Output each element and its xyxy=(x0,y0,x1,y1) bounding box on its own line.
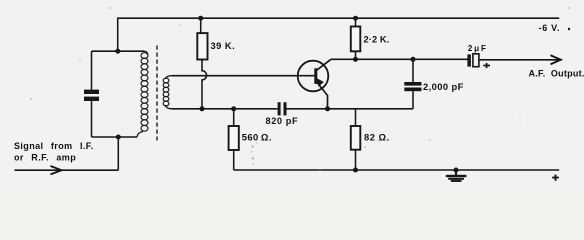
wire tank cap branch upper xyxy=(91,51,93,89)
wire 2.2K lead bottom xyxy=(355,51,357,59)
wire input vertical to tank xyxy=(117,137,119,170)
label plus polarity xyxy=(483,63,490,68)
transistor Q1 emitter arrow (PNP) xyxy=(316,78,324,87)
transformer core dashed line xyxy=(156,46,158,141)
svg-text:39 K.: 39 K. xyxy=(211,41,236,51)
resistor R3 2.2K lead top xyxy=(355,18,357,26)
svg-text:A.F. Output.: A.F. Output. xyxy=(529,69,584,79)
capacitor C3 2000pF plates xyxy=(404,82,421,86)
svg-text:82 Ω.: 82 Ω. xyxy=(364,131,390,142)
node collector rail / 2000pF junction xyxy=(411,57,416,62)
svg-text:Signal from I.F.: Signal from I.F. xyxy=(14,141,94,151)
wire tank top xyxy=(92,50,145,52)
svg-text:820 pF: 820 pF xyxy=(266,116,299,126)
inductor T1 primary winding xyxy=(141,53,148,59)
wire 2000pF lead bottom xyxy=(412,91,414,109)
stray period after -6V xyxy=(568,28,570,30)
svg-text:560 Ω.: 560 Ω. xyxy=(242,131,272,142)
wire input arrow line xyxy=(15,169,119,171)
wire bottom ground rail xyxy=(234,169,560,171)
wire base line (secondary to base) xyxy=(172,75,315,77)
transistor Q1 emitter lead xyxy=(317,82,328,109)
wire bottom line right segment xyxy=(287,108,414,110)
wire top supply rail xyxy=(118,17,560,19)
output arrowhead xyxy=(551,55,561,64)
node 560R top junction xyxy=(231,106,236,111)
capacitor C4 2uF electrolytic open plate xyxy=(473,54,479,67)
wire tank bottom xyxy=(92,136,138,138)
svg-text:2·2 K.: 2·2 K. xyxy=(364,34,390,44)
wire collector rail xyxy=(331,58,468,60)
capacitor C4 2uF electrolytic solid plate xyxy=(467,54,471,66)
resistor R1 39K lead top xyxy=(200,18,202,33)
inductor T1 secondary winding xyxy=(163,78,169,83)
node ground junction xyxy=(454,168,459,173)
ground symbol bars xyxy=(446,175,467,177)
transistor Q1 collector lead xyxy=(317,59,332,70)
capacitor C3 2000pF lead top xyxy=(412,59,414,82)
node top rail / 39K junction xyxy=(198,16,203,21)
wire 39K lead down with hop over base line xyxy=(202,60,207,109)
svg-text:2,000 pF: 2,000 pF xyxy=(423,81,464,92)
wire tank cap branch lower xyxy=(91,101,93,137)
node top rail / 2.2K junction xyxy=(353,16,358,21)
node 39K / AGC line junction xyxy=(200,106,205,111)
wire AGC/bias bottom line left segment xyxy=(172,108,278,110)
node 82R bottom junction xyxy=(353,168,358,173)
input arrowhead xyxy=(51,166,62,174)
resistor R4 82 ohm lead top xyxy=(355,109,357,126)
resistor R2 560 ohm body xyxy=(229,126,239,150)
resistor R3 2.2K body xyxy=(351,27,361,52)
wire 560 ohm lead bottom to rail xyxy=(233,150,235,170)
faint scan smudges (decorative) xyxy=(30,7,570,171)
svg-text:2μF: 2μF xyxy=(468,44,488,53)
ground symbol stub xyxy=(455,170,457,175)
svg-text:-6 V.: -6 V. xyxy=(539,23,561,33)
wire 82 ohm lead bottom xyxy=(355,150,357,170)
inductor T1 secondary top lead xyxy=(165,76,172,79)
inductor T1 primary bottom lead xyxy=(137,132,143,138)
wire rail to tank top xyxy=(117,18,119,52)
capacitor tank tuning cap xyxy=(84,90,99,94)
resistor R1 39K body xyxy=(197,33,207,59)
svg-text:or R.F. amp: or R.F. amp xyxy=(14,153,76,163)
resistor R2 560 ohm lead top xyxy=(233,109,235,126)
node tank bottom junction xyxy=(116,135,121,140)
wire output line xyxy=(479,59,560,61)
node emitter line junction xyxy=(325,106,330,111)
transistor Q1 circle xyxy=(298,61,329,92)
capacitor C2 820pF xyxy=(278,102,281,115)
node tank top junction xyxy=(115,49,120,54)
node collector rail / 2.2K junction xyxy=(353,57,358,62)
inductor T1 secondary bottom lead xyxy=(165,105,172,109)
transistor Q1 base bar xyxy=(314,68,317,84)
resistor R4 82 ohm body xyxy=(351,126,361,150)
inductor T1 primary top lead xyxy=(144,51,148,55)
label plus battery xyxy=(552,175,559,181)
